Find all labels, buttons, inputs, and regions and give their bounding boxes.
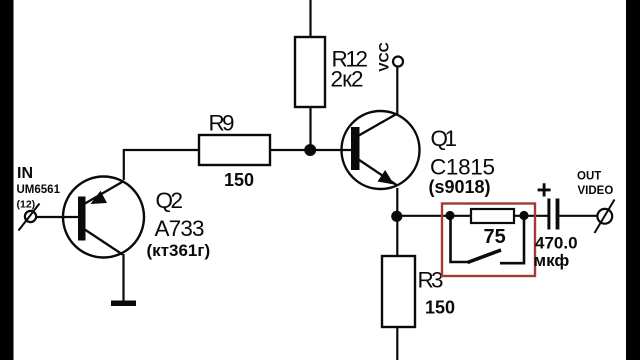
wire node to capacitor (397, 215, 547, 217)
wire VCC to Q1 collector (396, 67, 398, 115)
resistor R12 (295, 37, 325, 107)
IN terminal slash (19, 204, 40, 231)
red highlight box (442, 204, 535, 277)
switch contact wire (500, 219, 524, 263)
resistor R3 (382, 256, 415, 327)
transistor Q1 (342, 111, 420, 189)
svg-text:470.0: 470.0 (535, 234, 578, 253)
svg-text:UM6561: UM6561 (17, 184, 61, 196)
svg-text:VIDEO: VIDEO (578, 185, 614, 197)
node right of 75 resistor (519, 211, 528, 220)
node left of 75 resistor (445, 211, 454, 220)
OUT terminal slash (595, 200, 615, 234)
OUT terminal (597, 209, 612, 224)
wire base rail (Q2 emitter corner to Q1 base) (124, 150, 352, 180)
wire R12 bottom to node (309, 107, 311, 151)
svg-text:2к2: 2к2 (331, 67, 364, 92)
svg-text:OUT: OUT (577, 171, 601, 183)
switch pole wire (451, 219, 469, 262)
svg-text:A733: A733 (155, 216, 205, 241)
ground (111, 301, 136, 307)
capacitor C plates (547, 199, 550, 230)
node junction R12/R9/Q1 (304, 144, 316, 156)
svg-text:C1815: C1815 (430, 155, 495, 180)
svg-text:(s9018): (s9018) (429, 177, 491, 197)
wire Q2 collector to ground (122, 254, 124, 301)
IN terminal (25, 211, 36, 222)
svg-text:(12): (12) (17, 199, 36, 211)
svg-text:(кт361г): (кт361г) (147, 241, 211, 260)
wire capacitor to OUT terminal (559, 215, 598, 217)
wire Q1 emitter to node (396, 188, 398, 217)
svg-text:R3: R3 (418, 267, 444, 292)
resistor 75 (471, 209, 514, 223)
wire top feed to R12 (309, 0, 311, 37)
svg-text:IN: IN (17, 165, 33, 182)
left black bar (0, 0, 14, 360)
svg-text:VCC: VCC (376, 42, 392, 72)
svg-text:мкф: мкф (534, 251, 570, 270)
node junction emitter/R3/output (391, 211, 402, 222)
resistor R9 (199, 135, 270, 165)
svg-text:Q2: Q2 (156, 188, 184, 213)
wire R3 to bottom edge (396, 327, 398, 360)
svg-text:150: 150 (425, 298, 455, 318)
right black bar (626, 0, 640, 360)
wire IN to Q2 base (36, 216, 79, 218)
transistor Q2 (63, 177, 144, 258)
svg-text:Q1: Q1 (431, 126, 458, 151)
svg-text:150: 150 (224, 170, 254, 190)
switch blade (468, 250, 502, 263)
svg-text:75: 75 (484, 226, 506, 248)
VCC terminal (393, 57, 403, 67)
svg-text:R9: R9 (209, 111, 235, 136)
wire node down to R3 (396, 216, 398, 256)
